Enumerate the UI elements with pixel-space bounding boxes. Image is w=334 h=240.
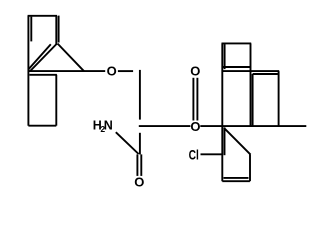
lower-right ring: companion vertical xyxy=(224,127,226,155)
ring top-left: right vertical xyxy=(55,16,57,45)
lower-left ring: right vertical xyxy=(55,75,57,126)
amide C=O double bond line 1 xyxy=(136,154,138,176)
wire: diagonal bond down-right xyxy=(58,44,84,72)
ring B: right vertical xyxy=(278,71,280,126)
svg-text:N: N xyxy=(104,119,113,133)
ring A/lower ring: left vertical (long) xyxy=(221,43,223,181)
wire: diagonal bond down-left (pair line 2) xyxy=(28,44,51,69)
svg-text:O: O xyxy=(107,63,117,78)
ring A: inner companion left xyxy=(224,44,226,69)
amide C=O double bond line 2 xyxy=(140,154,142,176)
lower-left ring: bottom edge xyxy=(28,125,56,127)
ring A: inner companion bottom xyxy=(223,66,251,68)
lower-right ring: right vertical xyxy=(249,155,251,182)
wire: vertical bond from ether O chain xyxy=(139,70,141,120)
wire: chain horizontal left of ester O xyxy=(139,125,191,127)
wire: bond from Cl xyxy=(201,153,223,155)
svg-text:O: O xyxy=(190,63,200,78)
lower-right ring: diagonal xyxy=(224,128,251,155)
ring B: companion top xyxy=(253,73,278,75)
ring B: companion left vertical xyxy=(252,74,254,127)
wire: double-bond companion horizontal xyxy=(30,74,57,76)
wire: bond right of ether O xyxy=(118,70,133,72)
wire: horizontal bond to ether O xyxy=(28,70,105,72)
wire: bond from H2N to carbonyl xyxy=(116,132,139,154)
wire: chain horizontal right of ester O xyxy=(200,125,306,127)
svg-text:Cl: Cl xyxy=(189,147,199,163)
lower-right ring: inner double bond bottom xyxy=(224,177,249,179)
ring top-left: inner double-bond companion left xyxy=(30,17,32,42)
ring top-left: outer double-bond companion right xyxy=(58,16,60,43)
ring A right / ring B left vertical xyxy=(250,43,252,126)
lower-right ring: bottom edge xyxy=(222,180,250,182)
ester C=O double bond line 2 xyxy=(196,78,198,121)
svg-text:O: O xyxy=(190,119,200,134)
ring A (upper right): top edge xyxy=(222,42,252,44)
ester C=O double bond line 1 xyxy=(192,78,194,121)
ring B: top edge xyxy=(222,70,280,72)
svg-text:O: O xyxy=(134,175,144,190)
wire: vertical bond to amide carbonyl xyxy=(139,133,141,155)
wire: diagonal bond down-left (pair line 1) xyxy=(30,44,57,72)
ring top-left: top edge xyxy=(28,15,57,17)
ring top-left: left vertical (long, shared with lower-left ring) xyxy=(27,16,29,126)
